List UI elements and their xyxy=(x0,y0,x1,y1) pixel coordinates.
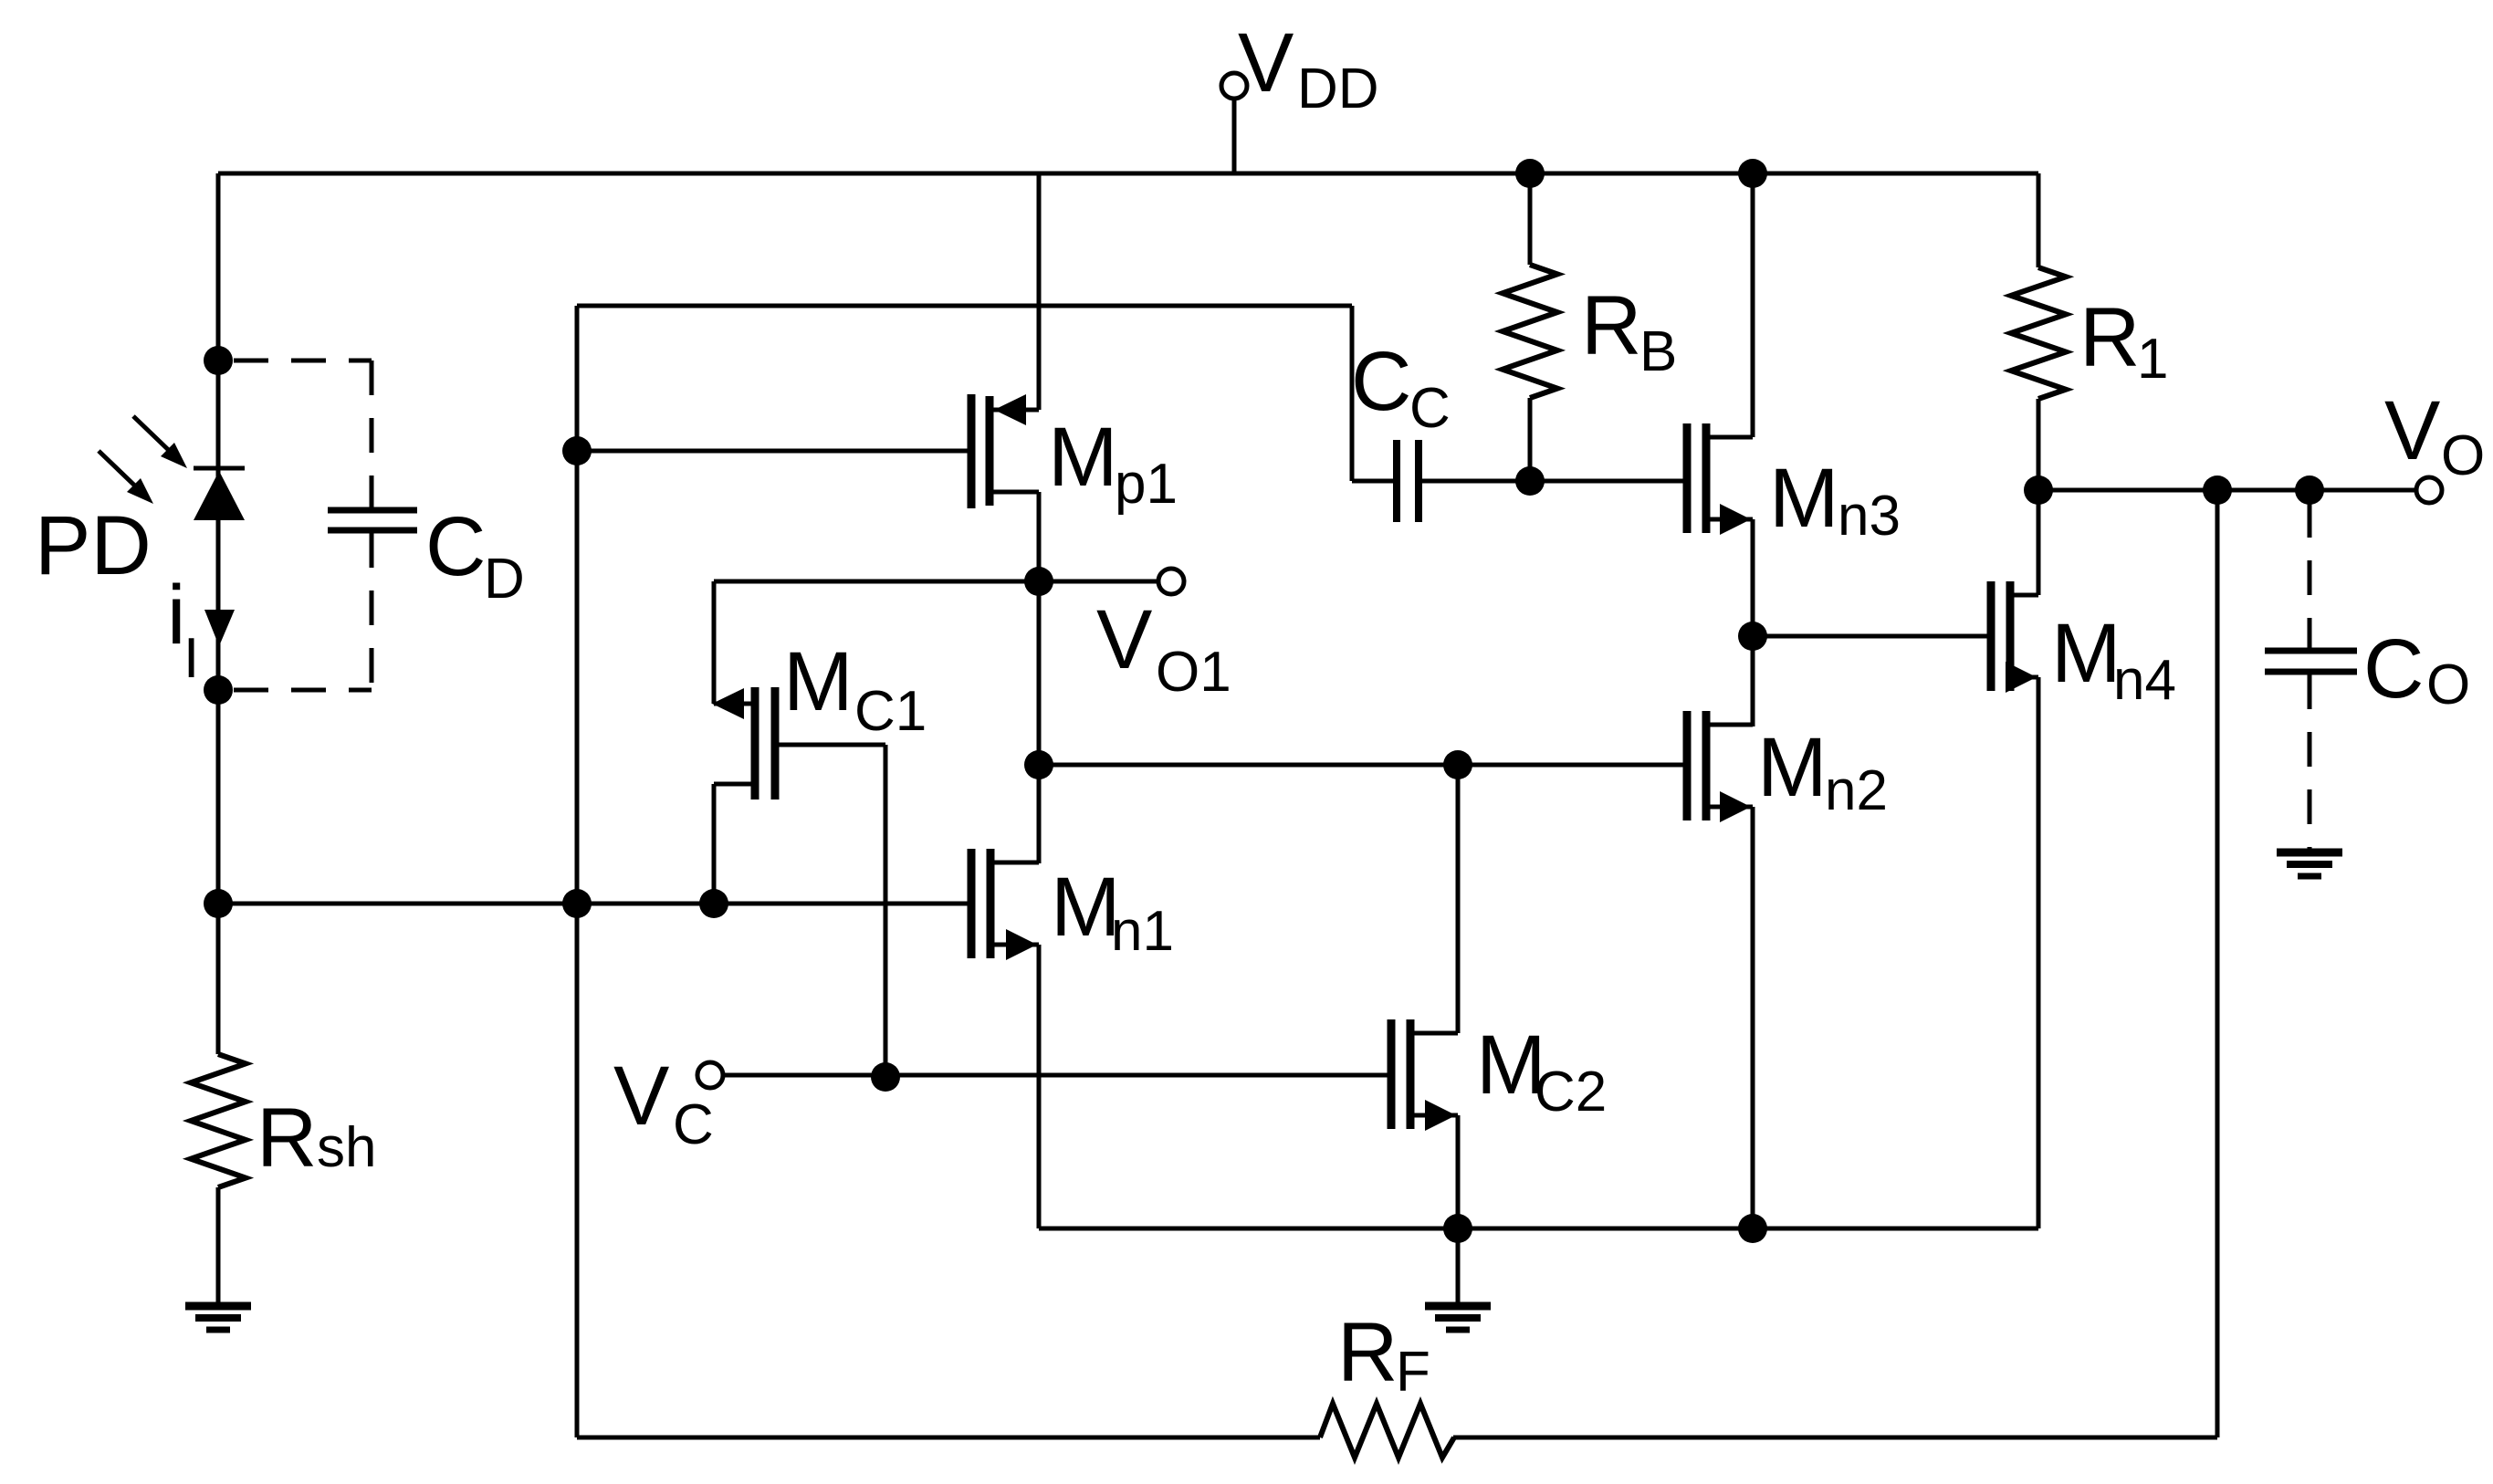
svg-text:M: M xyxy=(783,635,854,728)
wire CC left lead xyxy=(1352,479,1397,484)
wire Mn3 drain to rail xyxy=(1751,173,1755,437)
svg-text:n4: n4 xyxy=(2113,649,2176,712)
ground below CO xyxy=(2277,852,2342,876)
transistor Mn4 xyxy=(1991,581,2038,693)
svg-text:O: O xyxy=(2441,424,2485,487)
svg-text:n2: n2 xyxy=(1825,759,1888,822)
light arrow 2 xyxy=(99,451,153,504)
node RB bottom CC line xyxy=(1515,466,1545,496)
label RB xyxy=(1581,279,1677,383)
resistor R1 xyxy=(2011,173,2066,490)
wire Mn4 drain to VO node xyxy=(2037,490,2041,595)
node PD bottom xyxy=(204,675,233,705)
node Mn1 drain line VO1-Mn2 xyxy=(1024,750,1053,779)
svg-text:V: V xyxy=(1238,16,1294,110)
node photodiode anode xyxy=(204,346,233,375)
wire input node horizontal xyxy=(218,902,971,906)
node R1 bottom / VO line xyxy=(2024,476,2053,505)
wire tail horizontal xyxy=(1039,1227,2038,1231)
label Mn2 xyxy=(1757,721,1888,822)
node Mn3 source / Mn4 gate xyxy=(1738,622,1767,651)
label Mn1 xyxy=(1051,861,1174,963)
svg-text:n3: n3 xyxy=(1838,485,1901,548)
transistor MC2 xyxy=(1391,1019,1458,1131)
wire gate line to Mn2 xyxy=(1039,763,1687,768)
svg-text:O1: O1 xyxy=(1156,641,1231,704)
wire left vertical from rail to photodiode xyxy=(216,173,221,468)
wire bottom feedback right xyxy=(1453,1436,2217,1440)
ground below MC2 xyxy=(1425,1228,1491,1330)
svg-text:V: V xyxy=(613,1050,669,1143)
current arrow iI xyxy=(204,610,235,646)
capacitor CO xyxy=(2265,651,2357,672)
wire VO1 to MC1 source xyxy=(714,581,1039,704)
capacitor CO dashed lead bottom xyxy=(2308,674,2312,849)
wire top VDD rail xyxy=(218,172,2038,176)
wire input column x632 xyxy=(575,306,580,1437)
svg-text:C: C xyxy=(1351,335,1411,428)
label VDD xyxy=(1238,16,1379,120)
svg-text:C1: C1 xyxy=(854,680,927,743)
wire corner down to CC xyxy=(1350,306,1355,481)
wire Mp1 drain to VO1 node xyxy=(1037,492,1042,863)
label CO xyxy=(2363,622,2470,716)
svg-text:1: 1 xyxy=(2137,328,2168,391)
capacitor CD dashed connection right-top xyxy=(370,361,374,507)
svg-text:R: R xyxy=(257,1092,317,1185)
ground below Rsh xyxy=(185,1306,251,1330)
node MC2 source / tail line xyxy=(1443,1214,1472,1243)
wire CC right lead to Mn3 gate xyxy=(1419,479,1687,484)
svg-text:PD: PD xyxy=(35,499,152,592)
svg-text:O: O xyxy=(2426,653,2470,716)
label Mn4 xyxy=(2051,607,2176,712)
wire photodiode cathode down xyxy=(216,520,221,904)
wire VO horizontal xyxy=(2038,488,2416,493)
transistor Mn3 xyxy=(1687,423,1753,535)
wire MC2 drain up xyxy=(1456,765,1461,1033)
wire bottom feedback left xyxy=(577,1436,1320,1440)
svg-text:M: M xyxy=(2051,607,2121,700)
capacitor CD xyxy=(328,510,417,530)
transistor MC1 xyxy=(712,687,775,799)
node VC line xyxy=(871,1062,900,1092)
transistor Mn1 xyxy=(971,849,1039,960)
node Mn2 source tail xyxy=(1738,1214,1767,1243)
label VO xyxy=(2384,384,2485,487)
label CC xyxy=(1351,335,1451,440)
capacitor CD dashed connection right-bottom xyxy=(370,533,374,690)
svg-text:M: M xyxy=(1757,721,1828,814)
svg-text:p1: p1 xyxy=(1115,453,1178,516)
wire VO1 stub xyxy=(1039,580,1158,584)
node MC2 drain tap xyxy=(1443,750,1472,779)
svg-text:M: M xyxy=(1048,411,1118,504)
svg-text:sh: sh xyxy=(317,1116,376,1179)
svg-text:C: C xyxy=(425,500,486,593)
node Mp1 gate tap xyxy=(562,436,592,465)
terminal VDD xyxy=(1221,73,1247,173)
resistor Rsh xyxy=(191,904,246,1306)
wire MC1 gate to VC line xyxy=(775,745,885,1077)
light arrow 1 xyxy=(133,416,187,468)
wire MC1 drain down to input line xyxy=(712,784,717,904)
capacitor CO dashed lead top xyxy=(2308,503,2312,649)
node VO1 xyxy=(1024,567,1053,596)
wire Mn2 source down xyxy=(1751,807,1755,1228)
wire Mn1 source down xyxy=(1037,945,1042,1228)
svg-text:M: M xyxy=(1769,452,1839,545)
node input (PD / Rsh / feedback) xyxy=(204,889,233,918)
photodiode PD xyxy=(194,468,245,520)
label Mp1 xyxy=(1048,411,1178,516)
svg-text:F: F xyxy=(1396,1341,1430,1404)
svg-text:R: R xyxy=(1581,279,1641,372)
node CO tap xyxy=(2295,476,2324,505)
node VO feedback tap xyxy=(2203,476,2232,505)
label Mn3 xyxy=(1769,452,1901,548)
svg-text:C: C xyxy=(1409,377,1451,440)
wire MC2 source down xyxy=(1456,1115,1461,1228)
svg-text:D: D xyxy=(484,548,525,611)
svg-text:C: C xyxy=(673,1093,714,1156)
label iI xyxy=(167,569,199,690)
wire Mn3 source to Mn2 drain xyxy=(1751,519,1755,726)
svg-text:n1: n1 xyxy=(1111,900,1174,963)
resistor RB xyxy=(1503,173,1557,481)
svg-text:I: I xyxy=(183,627,199,690)
capacitor CD dashed connection top xyxy=(234,359,372,363)
svg-text:B: B xyxy=(1639,320,1677,383)
wire to Mn4 gate xyxy=(1753,634,1991,639)
label MC1 xyxy=(783,635,927,743)
terminal VO1 xyxy=(1158,569,1184,594)
svg-text:V: V xyxy=(1096,593,1152,686)
label VO1 xyxy=(1096,593,1231,704)
capacitor CC xyxy=(1397,440,1419,522)
label MC2 xyxy=(1476,1019,1607,1123)
label R1 xyxy=(2079,291,2168,391)
label RF xyxy=(1337,1306,1430,1404)
svg-text:R: R xyxy=(1337,1306,1398,1399)
label VC xyxy=(613,1050,714,1156)
terminal VC xyxy=(697,1062,1391,1088)
label Rsh xyxy=(257,1092,376,1185)
wire feedback right vertical xyxy=(2215,490,2220,1437)
node input line x632 xyxy=(562,889,592,918)
label PD xyxy=(35,499,152,592)
wire Mp1 source to rail xyxy=(1037,173,1042,410)
svg-text:V: V xyxy=(2384,384,2440,477)
wire Mp1 gate line xyxy=(577,449,971,454)
label CD xyxy=(425,500,525,611)
transistor Mn2 xyxy=(1687,711,1753,822)
transistor Mp1 xyxy=(971,394,1039,508)
node RB top rail xyxy=(1515,159,1545,188)
wire top horizontal y335 to CC xyxy=(577,304,1352,308)
svg-text:R: R xyxy=(2079,291,2140,384)
capacitor CD dashed connection bottom xyxy=(234,688,372,693)
node Mn3 drain rail xyxy=(1738,159,1767,188)
wire Mn4 source down to tail xyxy=(2037,677,2041,1228)
svg-text:C2: C2 xyxy=(1535,1061,1607,1123)
svg-text:C: C xyxy=(2363,622,2424,716)
terminal VO xyxy=(2416,477,2442,503)
node MC1 drain input line xyxy=(699,889,728,918)
svg-text:DD: DD xyxy=(1297,57,1379,120)
resistor RF xyxy=(1320,1404,1454,1458)
